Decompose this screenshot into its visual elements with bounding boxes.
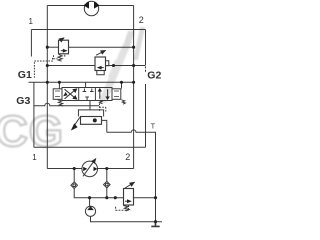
check valve CV2 diamond: [104, 181, 111, 188]
wire T line with hop: [107, 130, 156, 222]
check valve CV1 down leg: [74, 189, 123, 198]
wire top line right: [98, 5, 133, 7]
wire DCV pilot stub P: [85, 82, 87, 87]
gauge FM1 circle: [82, 161, 98, 177]
relief valve V1 body: [59, 40, 69, 54]
wire valve2 right: [106, 65, 146, 67]
wire bridge over unload valve: [78, 110, 103, 117]
DCV right cap: [112, 89, 121, 100]
motor M1 circle: [84, 1, 98, 15]
check valve CV2 down leg: [106, 188, 108, 198]
gauge FM1 adjust arrow: [83, 159, 96, 177]
block boundary right upper: [145, 30, 147, 64]
pilot dashed valve drain bracket: [100, 104, 106, 112]
wire DCV pilot stub A: [58, 82, 60, 88]
relief valve V3 outlet: [134, 197, 156, 199]
relief valve V2 body: [95, 57, 106, 71]
wire T from unload valve: [102, 120, 107, 132]
relief valve V1 arrow: [61, 50, 64, 52]
wire bottom run: [47, 168, 82, 170]
DCV port marks lower: [99, 101, 103, 104]
wire G3 line with hop: [34, 103, 99, 106]
svg-text:CG: CG: [0, 107, 64, 156]
check valve CV1 stem: [73, 169, 75, 183]
svg-text:2: 2: [139, 15, 144, 25]
wire G3 branch vertical: [33, 82, 35, 147]
tank T1: [151, 222, 159, 227]
DCV left pilot mark: [55, 91, 60, 97]
DCV right pilot mark: [114, 91, 119, 97]
relief valve V2 drain U: [97, 71, 104, 75]
svg-text:1: 1: [29, 17, 34, 26]
relief valve V2 adjust arrow: [96, 50, 106, 55]
relief valve V2 arrow: [101, 67, 104, 69]
svg-text:T: T: [151, 124, 156, 131]
DCV spring lower right: [122, 100, 126, 104]
watermark: [0, 27, 145, 156]
check valve CV1 diamond: [71, 182, 78, 189]
wire top line left: [47, 5, 85, 7]
svg-text:1: 1: [32, 153, 37, 162]
wire G1 line: [29, 81, 134, 83]
unload valve V4 ball: [93, 118, 97, 122]
wire port1 vertical: [46, 6, 48, 169]
pilot line G2 dashed: [145, 63, 147, 73]
wire valve1 inlet: [47, 46, 58, 48]
pump P1 circle: [85, 206, 95, 216]
DCV right box arrows: [100, 89, 108, 99]
directional valve DCV body: [62, 88, 112, 101]
DCV centre box blocked: [83, 89, 94, 101]
pump P1 riser: [89, 198, 91, 207]
relief valve V3 body: [124, 189, 134, 206]
block boundary left: [30, 30, 32, 57]
DCV left cap: [53, 89, 62, 100]
unload valve V4 body: [81, 117, 102, 125]
relief valve V2 pilot step: [106, 61, 109, 66]
wire DCV drain stub: [89, 101, 91, 110]
motor M1 rotation arrows: [83, 1, 99, 8]
svg-text:G2: G2: [147, 70, 161, 82]
wire valve2 left: [47, 65, 95, 67]
relief valve V1 spring: [58, 54, 62, 61]
check valve CV2 stem: [106, 169, 108, 182]
relief valve V3 arrow: [125, 200, 128, 202]
relief valve V3 drain dashed: [116, 205, 129, 210]
wire port2 vertical: [133, 6, 135, 169]
svg-text:2: 2: [125, 152, 130, 162]
block boundary top: [31, 29, 145, 31]
pilot dashed G1: [34, 57, 52, 78]
block boundary bottom: [34, 146, 146, 148]
svg-text:G1: G1: [18, 69, 32, 81]
unload valve V4 arrow: [75, 117, 80, 124]
relief valve V3 adjust arrow: [125, 182, 135, 188]
DCV left box arrows: [65, 89, 75, 99]
gauge FM1 internal arrows: [83, 167, 97, 171]
relief valve V3 spring: [124, 206, 130, 212]
DCV spring lower left: [58, 100, 64, 106]
wire DCV pilot stub B: [121, 82, 123, 88]
relief valve V1 adjust arrow: [60, 38, 64, 41]
wire valve1 outlet: [69, 46, 134, 48]
pump P1 suction: [91, 216, 163, 221]
svg-text:G3: G3: [16, 95, 30, 107]
relief valve V1 drain dashed: [54, 55, 65, 59]
block boundary right lower: [145, 84, 147, 147]
pump P1 triangle: [87, 206, 94, 210]
